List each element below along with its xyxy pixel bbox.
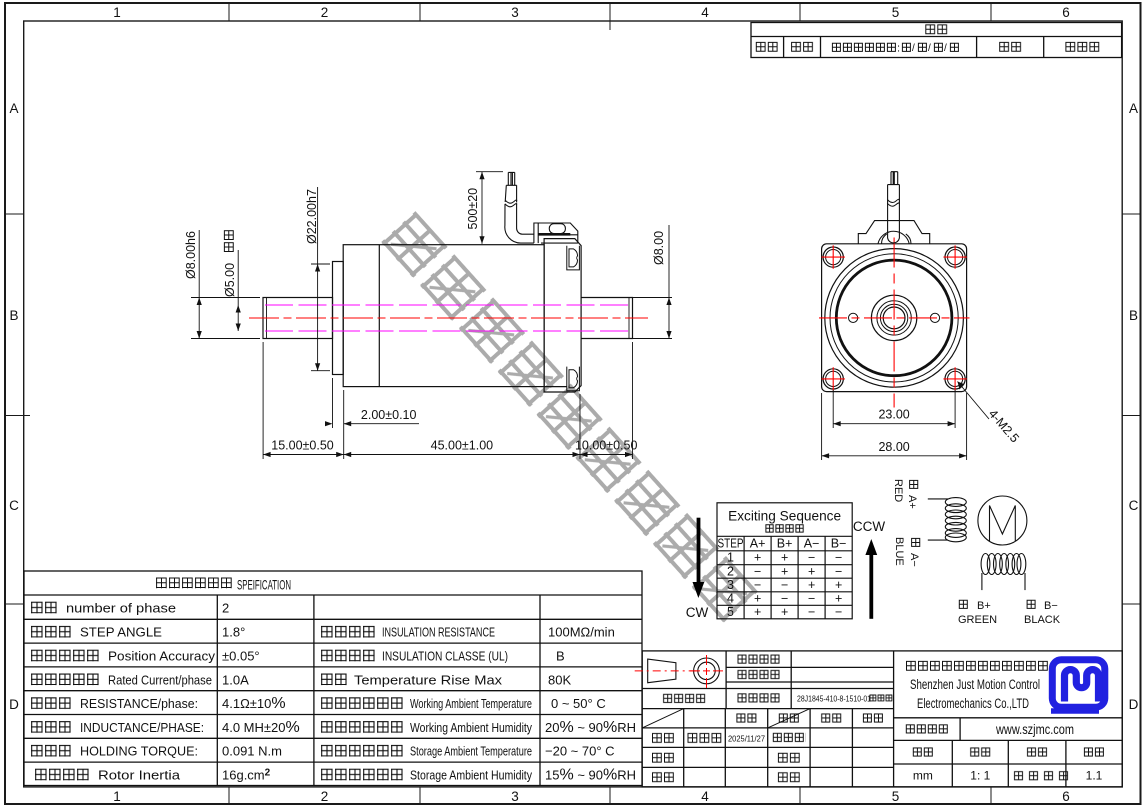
rear end bell xyxy=(544,239,581,392)
svg-text:+: + xyxy=(781,605,788,619)
校准 | 审批 xyxy=(651,771,675,783)
left margin ticks xyxy=(5,214,30,604)
spec table frame xyxy=(24,571,642,786)
front view red centerlines xyxy=(819,238,970,408)
励磁顺序 subtitle xyxy=(765,524,805,534)
projection circle crosshair xyxy=(690,655,723,688)
right margin ticks xyxy=(1122,214,1140,604)
dimension arrows side view xyxy=(197,172,672,457)
col3 row8 保存湿度范围 Storage Ambient Humidity | 15% ~ 90%RH xyxy=(320,768,404,782)
svg-text:1: 1 xyxy=(113,5,121,20)
company name 深圳市杰美康机电有限公司 xyxy=(905,660,1049,672)
CW arrow xyxy=(693,518,705,598)
svg-text:5: 5 xyxy=(892,789,900,804)
CCW arrow xyxy=(865,539,877,619)
svg-text:D: D xyxy=(9,697,19,712)
JMC logo xyxy=(1051,660,1105,711)
row7 静力矩 HOLDING TORQUE xyxy=(30,744,72,758)
dim Ø22.00h7 ext+line xyxy=(311,187,330,371)
svg-text:−20 ~ 70° C: −20 ~ 70° C xyxy=(545,744,615,759)
svg-text:BLUE: BLUE xyxy=(893,537,905,566)
svg-text:5: 5 xyxy=(727,605,734,619)
svg-text:2025/11/27: 2025/11/27 xyxy=(728,734,765,744)
svg-text:16g.cm2: 16g.cm2 xyxy=(222,768,271,783)
revision table texts xyxy=(924,24,948,36)
svg-text:0 ~ 50° C: 0 ~ 50° C xyxy=(551,696,606,711)
svg-text:Rotor Inertia: Rotor Inertia xyxy=(98,768,181,783)
corner hole BL xyxy=(823,369,843,389)
header row STEP A+ B+ A- B- xyxy=(718,537,847,551)
bottom margin ticks xyxy=(229,787,991,804)
产品系列 xyxy=(737,654,781,665)
svg-text:CCW: CCW xyxy=(853,519,885,534)
label 蓝 A- BLUE (rotated) xyxy=(908,537,921,567)
svg-text:+: + xyxy=(835,578,842,592)
svg-text:C: C xyxy=(1129,498,1139,513)
magenta hidden hole lines xyxy=(265,305,631,331)
svg-text:1.8°: 1.8° xyxy=(222,625,245,640)
svg-text:15.00±0.50: 15.00±0.50 xyxy=(271,439,334,453)
svg-text:mm: mm xyxy=(913,769,933,783)
col3 row7 保存温度范围 Storage Ambient Temperature | -20 ~ 70 C xyxy=(320,744,404,758)
top margin ticks xyxy=(229,3,991,30)
svg-text:−: − xyxy=(808,551,815,565)
svg-text:+: + xyxy=(754,605,761,619)
svg-text:23.00: 23.00 xyxy=(878,408,909,422)
cable tip wires xyxy=(508,172,514,185)
motor symbol M circle xyxy=(978,496,1027,545)
svg-text:20% ~ 90%RH: 20% ~ 90%RH xyxy=(545,719,636,736)
col3 row6 使用湿度范围 Working Ambient Humidity | 20% ~ 90%RH xyxy=(320,720,404,734)
label 黑 B- BLACK xyxy=(1026,599,1037,610)
svg-text:D: D xyxy=(1129,697,1139,712)
svg-text:Working Ambient Humidity: Working Ambient Humidity xyxy=(410,720,532,735)
svg-text:/: / xyxy=(928,43,931,54)
svg-text:A−: A− xyxy=(804,537,820,551)
label 红 A+ RED (rotated) xyxy=(906,479,919,509)
spec table header 电机规格说明 SPEIFICATION xyxy=(155,577,233,590)
bottom dims baseline xyxy=(263,454,632,456)
svg-text:B: B xyxy=(556,649,565,664)
watermark 杰美康机电有限公司 xyxy=(377,208,765,631)
svg-text:/: / xyxy=(944,43,947,54)
front flange square xyxy=(822,244,967,392)
svg-text:45.00±1.00: 45.00±1.00 xyxy=(431,439,494,453)
svg-text:1: 1 xyxy=(727,551,734,565)
dim Ø8.00 right xyxy=(584,225,672,339)
projection symbol centerline xyxy=(635,670,697,672)
svg-text:B: B xyxy=(9,308,18,323)
svg-text:28.00: 28.00 xyxy=(878,440,909,454)
svg-text:A: A xyxy=(9,101,18,116)
label 绿 B+ GREEN xyxy=(958,599,969,610)
cable on side view xyxy=(505,172,534,243)
zone labels left xyxy=(9,101,19,712)
svg-text:1.1: 1.1 xyxy=(1086,769,1103,783)
center boss circles xyxy=(871,295,916,340)
svg-text:2: 2 xyxy=(727,564,734,578)
motor can circles xyxy=(825,249,964,388)
svg-text:−: − xyxy=(835,551,842,565)
svg-text:4.0 MH±20%: 4.0 MH±20% xyxy=(222,719,300,736)
svg-text:number of phase: number of phase xyxy=(66,601,176,616)
svg-text:+: + xyxy=(754,592,761,606)
front view cable entry xyxy=(858,172,929,244)
svg-text:B−: B− xyxy=(831,537,847,551)
svg-text:B: B xyxy=(1129,308,1138,323)
col3 row2 绝缘电阻 INSULATION RESISTANCE | 100MΩ/min xyxy=(320,625,376,639)
svg-text:3: 3 xyxy=(727,578,734,592)
right shaft xyxy=(581,298,632,339)
left shaft xyxy=(263,298,333,339)
row5 相电阻 RESISTANCE/phase xyxy=(30,696,72,710)
row6 相电感 INDUCTANCE/PHASE xyxy=(30,720,72,734)
corner hole TL xyxy=(823,247,843,267)
绘图 | 何成威 | 2025/11/27 | 标准化 xyxy=(651,732,675,744)
svg-text:+: + xyxy=(754,551,761,565)
svg-text:STEP: STEP xyxy=(718,537,744,551)
svg-text:−: − xyxy=(781,578,788,592)
dim Ø8.00h6 ext+line xyxy=(191,230,260,339)
svg-text:Temperature Rise Max: Temperature Rise Max xyxy=(354,672,503,687)
bottom dim arrows xyxy=(263,452,271,457)
svg-text::: : xyxy=(897,43,900,55)
设计 | 工艺 xyxy=(651,752,675,764)
svg-text:Ø8.00h6: Ø8.00h6 xyxy=(184,231,198,279)
svg-text:RED: RED xyxy=(892,479,904,502)
svg-text:+: + xyxy=(808,564,815,578)
svg-text:Working Ambient Temperature: Working Ambient Temperature xyxy=(410,696,532,711)
svg-text:15% ~ 90%RH: 15% ~ 90%RH xyxy=(545,767,636,784)
svg-text:6: 6 xyxy=(1062,789,1070,804)
svg-text:A+: A+ xyxy=(750,537,766,551)
svg-text:4: 4 xyxy=(701,5,709,20)
svg-text:100MΩ/min: 100MΩ/min xyxy=(548,625,615,640)
col3 row5 使用温度范围 Working Ambient Temperature | 0 ~ 50 C xyxy=(320,696,404,710)
svg-text:3: 3 xyxy=(511,5,519,20)
svg-text:1: 1 xyxy=(113,789,121,804)
zone labels right xyxy=(1129,101,1139,712)
phase B coil (horizontal) xyxy=(981,554,1026,591)
front plate joint line xyxy=(378,245,380,387)
svg-text:B+: B+ xyxy=(977,600,991,612)
projection symbol: trapezoid xyxy=(648,659,676,683)
svg-text:+: + xyxy=(835,592,842,606)
svg-text:±0.05°: ±0.05° xyxy=(222,649,260,664)
red centerline side view xyxy=(249,317,648,319)
motor can body xyxy=(343,245,544,387)
产品型号 xyxy=(737,693,781,704)
svg-text:INSULATION RESISTANCE: INSULATION RESISTANCE xyxy=(382,625,495,640)
svg-text:Exciting Sequence: Exciting Sequence xyxy=(728,509,841,524)
rear clip bottom xyxy=(567,367,580,391)
svg-text:28J1845-410-8-1510-01: 28J1845-410-8-1510-01 xyxy=(797,694,871,704)
right shaft chamfer line xyxy=(628,298,630,339)
svg-text:HOLDING TORQUE:: HOLDING TORQUE: xyxy=(80,744,198,759)
svg-text:STEP ANGLE: STEP ANGLE xyxy=(80,625,162,640)
col3 row3 绝缘等级 INSULATION CLASSE (UL) | B xyxy=(320,649,376,663)
svg-text:2: 2 xyxy=(222,601,229,616)
svg-text:Storage Ambient Humidity: Storage Ambient Humidity xyxy=(410,768,532,783)
diagonal lines in signature header cells xyxy=(642,709,810,728)
svg-text:2: 2 xyxy=(321,5,329,20)
projection symbol: circle view xyxy=(694,658,720,684)
svg-text:−: − xyxy=(835,564,842,578)
svg-text:2.00±0.10: 2.00±0.10 xyxy=(361,408,417,422)
cable break squiggle xyxy=(505,200,517,207)
svg-text:www.szjmc.com: www.szjmc.com xyxy=(995,722,1074,737)
svg-text:−: − xyxy=(808,605,815,619)
corner hole crosshairs xyxy=(822,245,967,390)
cable lower segment + bend xyxy=(505,203,534,243)
svg-text:Rated Current/phase: Rated Current/phase xyxy=(108,672,212,687)
bottom ext lines xyxy=(263,342,632,459)
corner hole BR xyxy=(945,369,965,389)
svg-text:CW: CW xyxy=(686,605,709,620)
step rows xyxy=(727,551,842,619)
svg-text:INDUCTANCE/PHASE:: INDUCTANCE/PHASE: xyxy=(80,720,204,735)
row4 相额定电流 Rated Current/phase xyxy=(30,673,100,687)
svg-text:+: + xyxy=(781,564,788,578)
row2 步距角 STEP ANGLE | 1.8 xyxy=(30,625,72,639)
svg-text:−: − xyxy=(808,592,815,606)
svg-text:6: 6 xyxy=(1062,5,1070,20)
产品名称 xyxy=(737,669,781,680)
svg-text:A: A xyxy=(1129,101,1138,116)
svg-text:INSULATION CLASSE (UL): INSULATION CLASSE (UL) xyxy=(382,649,508,664)
connector block on top xyxy=(534,223,578,243)
公司网址 xyxy=(905,724,949,735)
phase A coil (vertical) xyxy=(928,498,967,542)
2.00 outside arrows xyxy=(325,421,333,426)
svg-text:+: + xyxy=(781,551,788,565)
title block frame xyxy=(642,651,1122,787)
svg-text:A+: A+ xyxy=(906,495,918,509)
revision table frame xyxy=(751,23,1122,58)
签名 / 日期 headers xyxy=(736,713,758,724)
svg-text:RESISTANCE/phase:: RESISTANCE/phase: xyxy=(80,696,198,711)
svg-text:1: 1: 1: 1 xyxy=(970,769,990,783)
dim 500±20 xyxy=(476,172,503,244)
svg-text:500±20: 500±20 xyxy=(466,188,480,230)
svg-text:4: 4 xyxy=(727,592,734,606)
left shaft chamfer line xyxy=(266,298,268,339)
corner hole TR xyxy=(945,247,965,267)
svg-text:Storage Ambient Temperature: Storage Ambient Temperature xyxy=(410,744,532,759)
svg-text:0.091 N.m: 0.091 N.m xyxy=(222,744,282,759)
front view dimensions xyxy=(822,382,989,461)
svg-text:5: 5 xyxy=(892,5,900,20)
svg-text:1.0A: 1.0A xyxy=(222,672,249,687)
zone labels top xyxy=(113,5,1070,20)
svg-text:10.00±0.50: 10.00±0.50 xyxy=(575,439,638,453)
svg-text:−: − xyxy=(835,605,842,619)
svg-text:A−: A− xyxy=(908,553,920,567)
svg-text:3: 3 xyxy=(511,789,519,804)
rear clip top xyxy=(567,246,580,270)
row1 相数 number of phase | 2 xyxy=(30,601,58,615)
zone labels bottom xyxy=(113,789,1070,804)
svg-text:Ø22.00h7: Ø22.00h7 xyxy=(305,189,319,244)
svg-text:Position Accuracy: Position Accuracy xyxy=(108,649,216,664)
side small holes xyxy=(849,313,858,322)
pilot boss xyxy=(333,262,344,375)
dim 2.00 xyxy=(332,378,334,428)
单位 比例 页数 版本 xyxy=(912,747,934,758)
svg-text:2: 2 xyxy=(321,789,329,804)
svg-text:Ø5.00: Ø5.00 xyxy=(223,263,237,297)
row3 步距角误差 Position Accuracy xyxy=(30,649,100,663)
4-M2.5 leader xyxy=(958,382,990,420)
svg-text:4-M2.5: 4-M2.5 xyxy=(986,407,1022,446)
svg-text:−: − xyxy=(781,592,788,606)
svg-text:4: 4 xyxy=(701,789,709,804)
exciting sequence table frame xyxy=(717,503,852,619)
svg-text:80K: 80K xyxy=(548,672,571,687)
col3 row4 温升 Temperature Rise Max | 80K xyxy=(320,673,348,687)
投影方式 xyxy=(662,693,706,704)
svg-text:GREEN: GREEN xyxy=(958,614,997,626)
svg-text:Ø8.00: Ø8.00 xyxy=(652,231,666,265)
svg-text:−: − xyxy=(754,564,761,578)
svg-text:Electromechanics Co.,LTD: Electromechanics Co.,LTD xyxy=(917,696,1029,711)
dim Ø5.00 ext line xyxy=(237,250,239,331)
svg-text:/: / xyxy=(912,43,915,54)
svg-text:SPEIFICATION: SPEIFICATION xyxy=(237,577,291,593)
svg-text:C: C xyxy=(9,498,19,513)
svg-text:BLACK: BLACK xyxy=(1024,614,1061,626)
row8 转子惯量 Rotor Inertia xyxy=(34,768,90,782)
svg-text:Shenzhen Just Motion Control: Shenzhen Just Motion Control xyxy=(910,677,1040,692)
svg-text:B−: B− xyxy=(1044,600,1058,612)
svg-text:−: − xyxy=(754,578,761,592)
svg-text:4.1Ω±10%: 4.1Ω±10% xyxy=(222,695,286,712)
svg-text:B+: B+ xyxy=(777,537,793,551)
cable upper segment xyxy=(505,185,516,202)
svg-text:+: + xyxy=(808,578,815,592)
